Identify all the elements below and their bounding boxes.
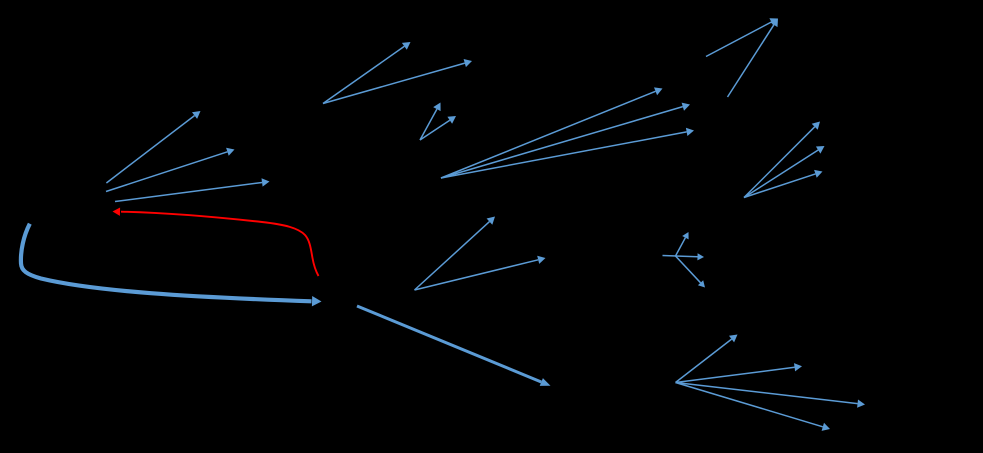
red curved arrow — [113, 208, 319, 277]
big curved thick arrow — [21, 224, 322, 307]
arrow left-fan 1 — [106, 111, 200, 183]
arrow left-fan 2 — [106, 148, 235, 192]
arrow top-pair 1 — [323, 42, 411, 104]
arrow tiny-fan up — [676, 232, 689, 256]
arrow small-V 2 — [420, 116, 456, 140]
arrow mid-fan 1 — [441, 87, 663, 178]
arrow small-V 1 — [420, 103, 441, 141]
arrow lowmid-fan 1 — [415, 217, 496, 291]
arrow top-pair 2 — [323, 59, 472, 104]
tiny-fan tail line — [663, 255, 677, 258]
arrow tiny-fan down — [676, 256, 706, 288]
arrow tiny-fan right — [676, 253, 705, 260]
arrow botright-fan 3 — [676, 383, 866, 408]
arrow mid-fan 2 — [441, 103, 690, 178]
arrow lowmid-fan 2 — [415, 256, 546, 290]
arrow mid-fan 3 — [441, 128, 694, 178]
arrow left-fan 3 — [115, 178, 270, 201]
arrow topright 2 — [728, 19, 779, 98]
arrow botright-fan 1 — [676, 335, 738, 383]
arrow botright-fan 4 — [676, 383, 831, 431]
arrow right-fan 1 — [744, 122, 820, 198]
arrow right-fan 3 — [744, 170, 823, 198]
arrow right-fan 2 — [744, 146, 825, 198]
arrow topright 1 — [706, 18, 778, 56]
arrow botright-fan 2 — [676, 363, 803, 382]
thick diagonal arrow — [357, 306, 551, 386]
